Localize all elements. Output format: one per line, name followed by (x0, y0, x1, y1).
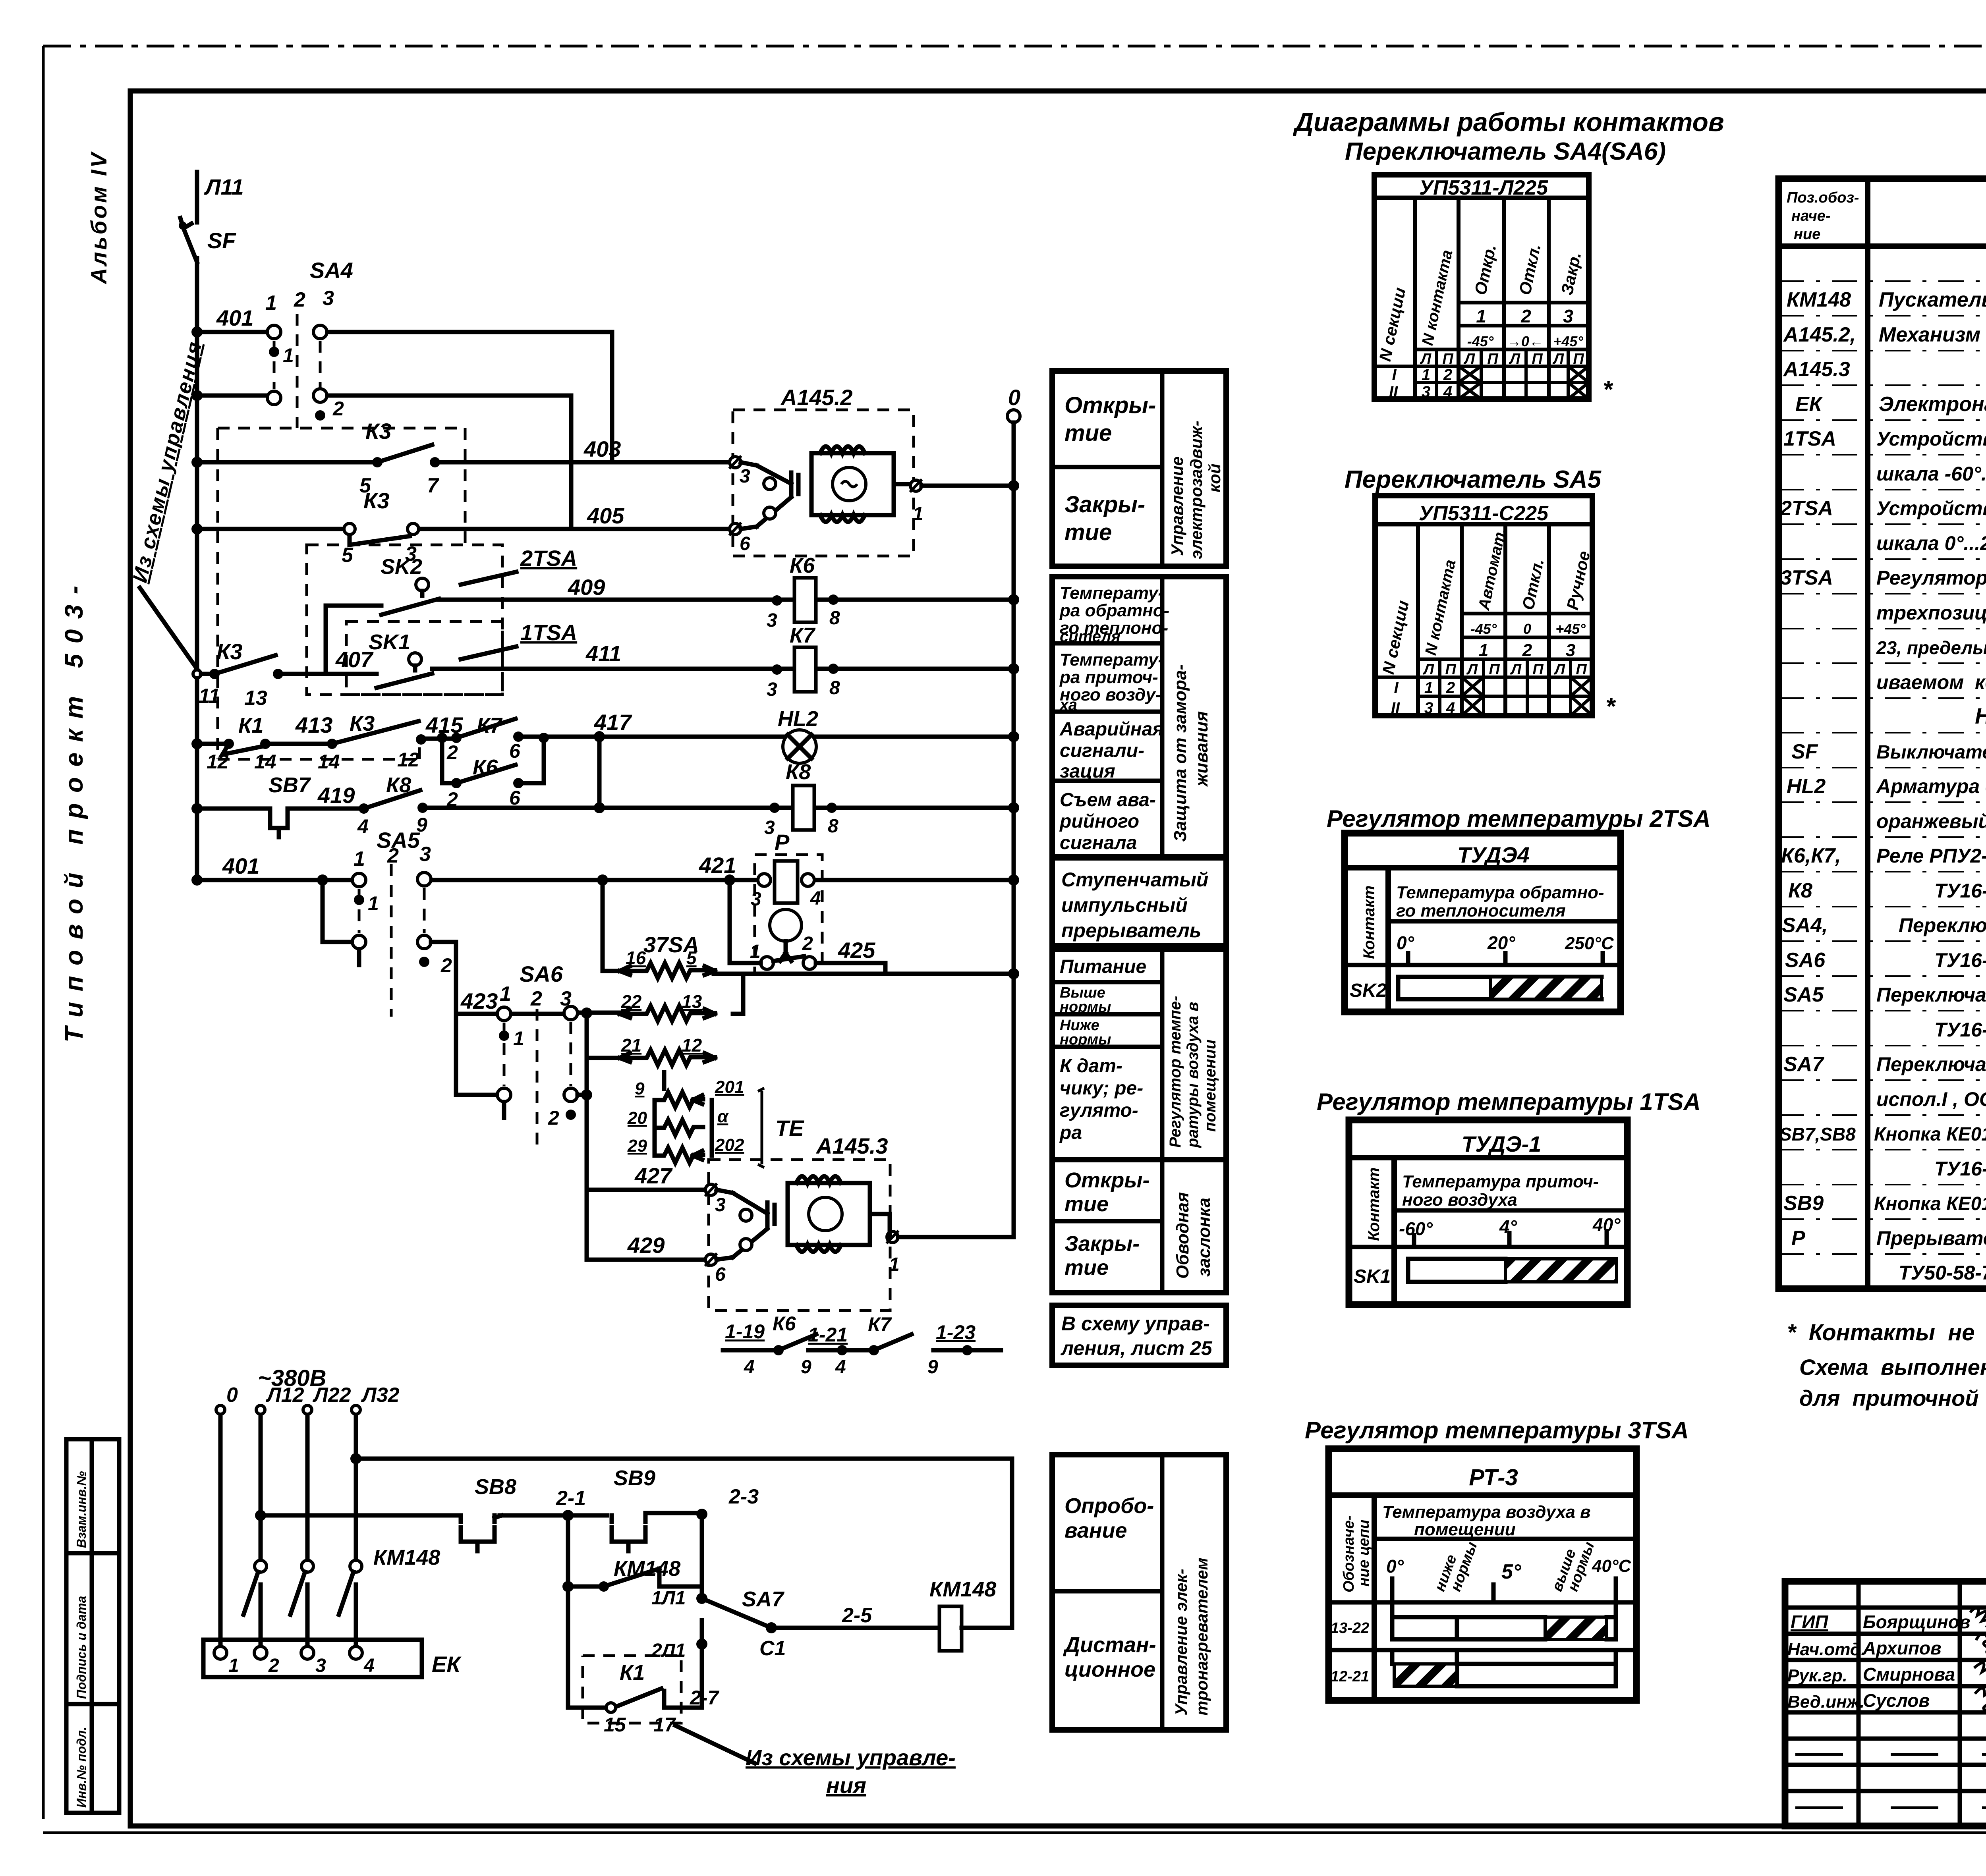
svg-text:П: П (1573, 351, 1584, 367)
svg-text:КМ148: КМ148 (373, 1546, 440, 1569)
svg-text:Л12: Л12 (265, 1384, 304, 1407)
wire rail 409 (326, 600, 1014, 674)
pushbutton SB8 (455, 1475, 568, 1551)
contact K3 on 413 (318, 712, 426, 773)
svg-text:Переключатель пакетный ПП2-10: Переключатель пакетный ПП2-10/Н2У3, (1876, 1053, 1986, 1075)
svg-text:го теплоносителя: го теплоносителя (1396, 901, 1566, 921)
svg-text:нормы: нормы (1060, 999, 1111, 1015)
svg-text:Управление элек-: Управление элек- (1172, 1569, 1190, 1716)
svg-text:ления, лист 25: ления, лист 25 (1061, 1337, 1213, 1359)
svg-text:Кнопка КЕ011У3, испол. 4, ТУ16: Кнопка КЕ011У3, испол. 4, ТУ16-526.407-7… (1874, 1193, 1986, 1214)
svg-text:Переключатель УП5311- А225У3,: Переключатель УП5311- А225У3, (1899, 914, 1986, 936)
svg-text:Л: Л (1553, 661, 1565, 678)
svg-text:423: 423 (460, 988, 498, 1013)
table switch SA4 UP5311-L225 (1374, 175, 1613, 403)
svg-text:2: 2 (1522, 641, 1532, 660)
svg-text:13: 13 (682, 991, 702, 1012)
svg-text:К6: К6 (790, 554, 815, 577)
svg-text:2: 2 (332, 398, 344, 420)
svg-text:2-5: 2-5 (842, 1604, 872, 1627)
svg-text:8: 8 (829, 677, 840, 699)
svg-text:2: 2 (802, 933, 813, 954)
svg-text:помещении: помещении (1202, 1040, 1219, 1132)
lamp HL2 (778, 707, 818, 763)
svg-text:20: 20 (627, 1108, 647, 1128)
svg-text:ТУ16-524. 074-75: ТУ16-524. 074-75 (1934, 949, 1986, 971)
svg-text:Аварийная: Аварийная (1059, 719, 1164, 740)
node ~380V supply (226, 1365, 400, 1407)
svg-text:1: 1 (1424, 679, 1433, 697)
svg-text:К3: К3 (216, 639, 243, 664)
outer sheet border top (dash-dot) (43, 45, 1986, 48)
svg-text:3: 3 (767, 610, 777, 631)
svg-text:ния: ния (826, 1773, 866, 1798)
svg-text:Л: Л (1509, 351, 1520, 367)
svg-text:SA4: SA4 (310, 258, 353, 283)
contact KM148 self-hold (562, 1515, 702, 1708)
svg-text:SA6: SA6 (1785, 949, 1826, 972)
svg-text:ТУ16-523.331-78: ТУ16-523.331-78 (1934, 880, 1986, 902)
wire rail 401b-421 (197, 878, 1014, 882)
relay coil K7 (767, 623, 840, 700)
wire 13 output (733, 974, 743, 1014)
svg-text:2: 2 (294, 288, 305, 311)
svg-text:1: 1 (513, 1027, 524, 1050)
contact K3 on 405 (342, 488, 624, 567)
node 401 (191, 305, 253, 338)
wire vertical 417 to 419 (594, 731, 605, 813)
svg-text:1: 1 (354, 847, 365, 870)
box 2TSA dashed (307, 545, 577, 695)
svg-text:1-23: 1-23 (936, 1321, 976, 1343)
svg-text:ционное: ционное (1064, 1658, 1155, 1681)
svg-text:шкала 0°...250°С , ТУ25-02.281: шкала 0°...250°С , ТУ25-02.281074-78 (1876, 532, 1986, 554)
svg-text:411: 411 (585, 641, 621, 666)
svg-text:0: 0 (226, 1384, 238, 1407)
svg-text:0: 0 (1523, 621, 1531, 637)
switch SA6 (456, 961, 592, 1148)
svg-text:2: 2 (548, 1107, 559, 1129)
svg-text:К8: К8 (1788, 879, 1812, 902)
svg-text:ТУ16-526. 407-79: ТУ16-526. 407-79 (1934, 1158, 1986, 1180)
svg-text:УП5311-Л225: УП5311-Л225 (1419, 176, 1548, 199)
svg-text:РТ-3: РТ-3 (1469, 1465, 1518, 1490)
table parts list row lines (1779, 281, 1986, 1254)
svg-text:0°: 0° (1386, 1556, 1404, 1577)
svg-text:405: 405 (587, 503, 624, 528)
note footnotes (1787, 1320, 1986, 1411)
thermal contact SK2 (381, 555, 439, 615)
contact K7 aux row (801, 1313, 912, 1378)
node 401 lower rail (191, 874, 203, 886)
node 2-3 (696, 1485, 759, 1520)
svg-text:1TSA: 1TSA (520, 620, 577, 645)
svg-text:На щите управления: На щите управления (1975, 703, 1986, 728)
sensor TE bracket (758, 1088, 804, 1168)
svg-text:0°: 0° (1397, 932, 1414, 953)
svg-text:сителя: сителя (1060, 628, 1121, 645)
table regulator RT-3 (1329, 1449, 1636, 1700)
svg-text:SB8: SB8 (475, 1475, 516, 1499)
svg-text:С1: С1 (759, 1637, 786, 1660)
wire drop 2-3 (700, 1515, 704, 1598)
svg-text:SA6: SA6 (520, 961, 563, 986)
contactor KM148 main contacts (243, 1546, 440, 1650)
svg-text:I: I (1394, 679, 1399, 697)
svg-text:импульсный: импульсный (1061, 894, 1188, 916)
svg-text:Ступенчатый: Ступенчатый (1061, 869, 1208, 891)
svg-text:SA5: SA5 (1783, 983, 1824, 1006)
svg-text:ЕК: ЕК (432, 1652, 462, 1677)
svg-text:Л32: Л32 (361, 1384, 400, 1407)
svg-text:ного воздуха: ного воздуха (1402, 1190, 1517, 1210)
svg-text:Опробо-: Опробо- (1064, 1494, 1154, 1518)
svg-text:сигнала: сигнала (1060, 832, 1137, 853)
svg-text:4: 4 (744, 1357, 755, 1378)
svg-text:SA7: SA7 (742, 1587, 785, 1611)
table circuit functions (1052, 371, 1226, 1365)
svg-text:1TSA: 1TSA (1783, 427, 1836, 450)
svg-text:3: 3 (767, 679, 777, 700)
svg-text:Питание: Питание (1060, 956, 1146, 977)
svg-text:Суслов: Суслов (1863, 1690, 1930, 1711)
table switch SA5 UP5311-S225 (1375, 496, 1616, 720)
svg-text:9: 9 (927, 1357, 938, 1378)
svg-text:421: 421 (699, 853, 736, 878)
resistor chain 3TSA (587, 932, 744, 1163)
svg-text:В схему управ-: В схему управ- (1061, 1312, 1210, 1335)
svg-text:21: 21 (621, 1035, 641, 1056)
svg-text:3: 3 (419, 843, 431, 866)
note: out of control-scheme label (128, 340, 206, 671)
node 419 rail (191, 803, 203, 814)
svg-text:Нач.отд.: Нач.отд. (1787, 1640, 1866, 1659)
svg-text:*: * (1605, 693, 1616, 720)
svg-text:12-21: 12-21 (1331, 1668, 1369, 1685)
svg-text:2-7: 2-7 (690, 1687, 719, 1709)
svg-text:Переключатель SA4(SA6): Переключатель SA4(SA6) (1345, 138, 1666, 165)
svg-text:Дистан-: Дистан- (1063, 1633, 1156, 1657)
svg-text:кой: кой (1205, 463, 1224, 492)
svg-text:электрозадвиж-: электрозадвиж- (1187, 421, 1206, 559)
svg-text:16: 16 (626, 948, 646, 968)
svg-text:оранжевый, ТУ16. 535. 681-76: оранжевый, ТУ16. 535. 681-76 (1876, 810, 1986, 832)
svg-text:тие: тие (1064, 1256, 1109, 1280)
svg-text:К8: К8 (786, 760, 811, 784)
svg-text:3: 3 (315, 1655, 326, 1676)
svg-text:для приточной системы П12: для приточной системы П12 она аналогична (1799, 1386, 1986, 1411)
svg-text:П: П (1576, 661, 1587, 678)
svg-text:К7: К7 (790, 623, 816, 647)
svg-text:1: 1 (889, 1254, 900, 1275)
svg-text:2: 2 (530, 987, 542, 1010)
svg-text:4: 4 (810, 888, 821, 909)
contact K1 (207, 714, 276, 773)
svg-text:рийного: рийного (1059, 811, 1139, 832)
svg-text:Регулятор температуры электри: Регулятор температуры электрический (1876, 567, 1986, 589)
node 1-23 aux (927, 1321, 1001, 1378)
svg-text:К6: К6 (773, 1312, 796, 1335)
wire rail 405 (197, 527, 733, 531)
wire 427 (587, 1188, 711, 1192)
svg-text:К1: К1 (620, 1661, 645, 1685)
wire phase 0 (218, 1414, 223, 1650)
wire left drop 427-429 (585, 1013, 589, 1260)
svg-text:17: 17 (653, 1714, 676, 1736)
outer sheet border bottom (43, 1832, 1986, 1834)
svg-text:9: 9 (801, 1357, 811, 1378)
svg-text:1-19: 1-19 (725, 1320, 765, 1343)
svg-text:Устройство терморегулирующее: Устройство терморегулирующее ТУДЭ-4, (1876, 497, 1986, 519)
svg-text:2: 2 (268, 1655, 279, 1676)
svg-text:425: 425 (838, 938, 875, 963)
svg-text:15: 15 (604, 1714, 626, 1736)
svg-text:Взам.инв.№: Взам.инв.№ (74, 1471, 89, 1548)
svg-text:401: 401 (222, 853, 259, 878)
node 1L1 (651, 1588, 707, 1609)
svg-text:А145.2: А145.2 (780, 385, 853, 410)
svg-text:Л: Л (1463, 351, 1475, 367)
svg-text:1: 1 (500, 982, 511, 1006)
heater EK (203, 1640, 462, 1677)
svg-text:Регулятор температуры 1TSA: Регулятор температуры 1TSA (1317, 1089, 1701, 1115)
svg-text:2: 2 (1443, 366, 1452, 384)
wire SA5-3 drop to 423 (597, 874, 620, 971)
svg-text:Кнопка КЕ011 У3 испол.5, толка: Кнопка КЕ011 У3 испол.5, толкатель красн… (1874, 1124, 1986, 1145)
svg-text:Переключатель SA5: Переключатель SA5 (1345, 466, 1602, 493)
svg-text:3: 3 (751, 889, 761, 910)
svg-text:Альбом IV: Альбом IV (86, 151, 111, 285)
thermal contact SK1 (369, 630, 432, 688)
svg-text:ра приточ-: ра приточ- (1059, 668, 1158, 687)
contact K8 on 419 (357, 773, 428, 838)
node 413 rail (191, 738, 203, 749)
svg-text:1: 1 (265, 291, 277, 315)
svg-text:1: 1 (913, 504, 923, 525)
node 0 bus terminal (1007, 385, 1020, 423)
svg-text:А145.3: А145.3 (1783, 358, 1850, 381)
svg-text:Л22: Л22 (312, 1384, 351, 1407)
svg-text:иваемом кожухе,ТУ25.02.096-75: иваемом кожухе,ТУ25.02.096-75 (1876, 671, 1986, 693)
svg-text:Откры-: Откры- (1064, 1168, 1149, 1192)
wire right drop to coil (1010, 1459, 1014, 1628)
svg-text:заслонка: заслонка (1194, 1198, 1214, 1277)
svg-text:К3: К3 (363, 488, 390, 513)
svg-text:* Контакты не используются: * Контакты не используются (1787, 1320, 1986, 1345)
svg-text:Съем ава-: Съем ава- (1060, 789, 1156, 811)
svg-text:2-3: 2-3 (728, 1485, 759, 1508)
svg-text:1: 1 (368, 892, 379, 915)
svg-text:тие: тие (1064, 519, 1112, 545)
wire phase L32 (354, 1414, 358, 1650)
svg-text:ние цепи: ние цепи (1356, 1519, 1372, 1586)
table heater functions (1052, 1455, 1226, 1730)
svg-text:3: 3 (764, 817, 775, 838)
pushbutton SB9 (568, 1466, 702, 1551)
wire 2-5 (771, 1604, 939, 1628)
svg-text:14: 14 (254, 751, 276, 773)
svg-text:4: 4 (1443, 383, 1452, 401)
svg-text:4: 4 (835, 1357, 846, 1378)
svg-text:КМ148: КМ148 (1787, 288, 1851, 311)
wire control circuit from L12 (255, 1510, 455, 1521)
svg-text:ра обратно-: ра обратно- (1059, 601, 1169, 620)
table regulator TUDE-1 (1349, 1120, 1627, 1305)
svg-text:HL2: HL2 (778, 707, 818, 731)
note from control scheme (675, 1725, 956, 1798)
svg-text:HL2: HL2 (1787, 775, 1826, 798)
svg-text:тие: тие (1064, 1192, 1109, 1216)
svg-text:4: 4 (363, 1655, 375, 1676)
svg-text:КМ148: КМ148 (929, 1577, 996, 1601)
svg-text:Закры-: Закры- (1064, 1232, 1140, 1256)
svg-text:7: 7 (427, 474, 439, 497)
svg-text:наче-: наче- (1791, 208, 1831, 224)
svg-text:SB7,SB8: SB7,SB8 (1779, 1124, 1856, 1145)
svg-text:20°: 20° (1487, 932, 1515, 953)
svg-text:1Л1: 1Л1 (651, 1588, 686, 1609)
svg-text:8: 8 (828, 816, 838, 837)
wire rail 407 (201, 669, 1014, 674)
svg-text:409: 409 (568, 575, 605, 600)
svg-text:П: П (1532, 351, 1543, 367)
svg-text:Боярщинов: Боярщинов (1863, 1612, 1971, 1632)
svg-text:А145.3: А145.3 (815, 1133, 888, 1158)
svg-text:Откры-: Откры- (1064, 392, 1156, 418)
svg-text:Температу-: Температу- (1060, 583, 1164, 603)
svg-text:Температу-: Температу- (1060, 650, 1164, 670)
svg-text:403: 403 (583, 436, 621, 461)
svg-text:Закры-: Закры- (1064, 492, 1145, 517)
svg-text:13-22: 13-22 (1331, 1620, 1369, 1637)
svg-text:3: 3 (323, 287, 334, 310)
svg-text:6: 6 (740, 533, 750, 554)
svg-text:шкала -60°... 40°С, ТУ25-02.28: шкала -60°... 40°С, ТУ25-02.281074-78 (1876, 463, 1986, 485)
svg-text:Температура воздуха в: Температура воздуха в (1382, 1502, 1591, 1522)
svg-text:Вед.инж.: Вед.инж. (1787, 1692, 1864, 1712)
svg-text:2: 2 (1446, 679, 1455, 697)
svg-text:Л11: Л11 (204, 174, 244, 199)
svg-text:SK1: SK1 (369, 630, 410, 654)
wire rail 403 (197, 460, 733, 465)
wire rail 419 (197, 808, 1014, 809)
svg-text:К6: К6 (473, 755, 498, 779)
svg-text:202: 202 (715, 1135, 744, 1155)
svg-text:Л: Л (1466, 661, 1478, 678)
svg-text:-45°: -45° (1470, 621, 1497, 637)
junction dots right bus (1008, 480, 1019, 491)
pushbutton SB7 (264, 773, 311, 837)
svg-text:живания: живания (1192, 711, 1211, 787)
contact K6 aux row (723, 1312, 816, 1378)
svg-text:-45°: -45° (1467, 333, 1494, 349)
svg-text:α: α (717, 1107, 729, 1126)
left stamp column (66, 1439, 119, 1813)
svg-text:П: П (1442, 351, 1453, 367)
svg-text:Защита от замора-: Защита от замора- (1171, 664, 1190, 842)
svg-text:Температура приточ-: Температура приточ- (1402, 1172, 1599, 1191)
switch SA4 section 2 (267, 389, 344, 421)
svg-text:П: П (1532, 661, 1544, 678)
svg-text:Пускатель магнитный: Пускатель магнитный (1879, 288, 1986, 311)
svg-text:II: II (1391, 699, 1400, 717)
svg-text:29: 29 (627, 1136, 647, 1156)
wire rail 413-415-417 (197, 737, 1014, 744)
svg-text:К3: К3 (365, 419, 392, 444)
svg-text:вание: вание (1064, 1519, 1127, 1542)
svg-text:Из схемы управле-: Из схемы управле- (746, 1745, 956, 1770)
svg-text:П: П (1489, 661, 1500, 678)
actuator A145.2 (729, 385, 1014, 556)
svg-text:Схема выполнена для приточно: Схема выполнена для приточной системы П1… (1799, 1355, 1986, 1380)
svg-text:SA4,: SA4, (1782, 914, 1828, 937)
svg-text:1-21: 1-21 (808, 1324, 848, 1346)
svg-text:ха: ха (1059, 696, 1077, 714)
svg-text:ТУДЭ-1: ТУДЭ-1 (1462, 1131, 1541, 1156)
switch SA7 (702, 1587, 786, 1660)
svg-text:413: 413 (295, 712, 332, 737)
svg-text:SB7: SB7 (269, 773, 311, 797)
svg-text:Л: Л (1510, 661, 1522, 678)
svg-text:407: 407 (335, 647, 374, 672)
svg-text:Р: Р (1791, 1227, 1805, 1250)
svg-text:П: П (1487, 351, 1498, 367)
svg-text:201: 201 (715, 1077, 744, 1097)
svg-text:3TSA: 3TSA (1780, 566, 1833, 589)
svg-text:ра: ра (1059, 1122, 1082, 1143)
svg-text:Л: Л (1420, 351, 1432, 367)
svg-text:испол.I , ОСТ16.0526.001-77: испол.I , ОСТ16.0526.001-77 (1876, 1088, 1986, 1110)
svg-text:Устройство терморегулирующее: Устройство терморегулирующее ТУДЭ-1, (1876, 428, 1986, 450)
svg-text:6: 6 (715, 1264, 726, 1285)
svg-text:427: 427 (634, 1163, 673, 1188)
svg-text:II: II (1389, 383, 1398, 401)
svg-text:SK1: SK1 (1354, 1266, 1391, 1287)
svg-text:помещении: помещении (1414, 1520, 1516, 1539)
svg-text:Арматура светосигнальная АСЛ: Арматура светосигнальная АСЛ 11У2, (1876, 775, 1986, 797)
svg-text:1: 1 (228, 1655, 239, 1676)
svg-text:Управление: Управление (1168, 456, 1186, 556)
svg-text:+45°: +45° (1553, 333, 1583, 349)
svg-text:3: 3 (740, 466, 750, 487)
svg-text:Выключатель А63-МУ3,2×10,ТУ16-: Выключатель А63-МУ3,2×10,ТУ16-522.110-74 (1876, 742, 1986, 763)
svg-text:2: 2 (387, 844, 399, 867)
svg-text:1: 1 (1479, 641, 1488, 660)
table parts list frame (1779, 179, 1986, 1289)
svg-text:2TSA: 2TSA (520, 546, 577, 571)
svg-text:419: 419 (317, 783, 355, 808)
svg-text:4: 4 (357, 815, 369, 838)
svg-text:К дат-: К дат- (1060, 1056, 1122, 1077)
svg-text:Электронагреватель: Электронагреватель (1879, 393, 1986, 416)
svg-text:23, пределы регулирования 0...: 23, пределы регулирования 0... 40°С, во … (1876, 637, 1986, 658)
svg-text:Регулятор температуры 2TSA: Регулятор температуры 2TSA (1327, 805, 1711, 832)
svg-text:0: 0 (1008, 385, 1020, 410)
svg-text:11: 11 (199, 685, 220, 708)
wire main bus (195, 332, 199, 880)
svg-text:П: П (1445, 661, 1456, 678)
node L11 incoming feeder (197, 172, 244, 222)
svg-text:12: 12 (397, 749, 419, 771)
svg-text:5: 5 (342, 544, 354, 567)
svg-text:SA7: SA7 (1783, 1053, 1824, 1076)
node rail 2 of SA4 (191, 390, 203, 401)
svg-text:SK2: SK2 (1350, 980, 1387, 1001)
svg-text:P: P (775, 830, 790, 855)
svg-text:ЕК: ЕК (1795, 393, 1823, 416)
svg-text:УП5311-С225: УП5311-С225 (1419, 502, 1549, 525)
wire phase L22 (305, 1414, 310, 1650)
